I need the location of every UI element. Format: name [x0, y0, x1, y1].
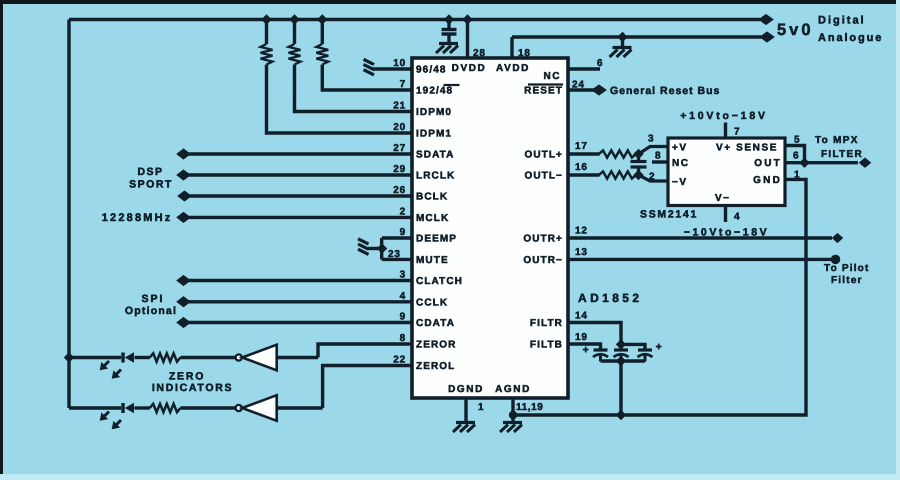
svg-text:7: 7	[734, 127, 740, 138]
op-amp U1 AD1852 body	[412, 58, 568, 398]
node LRCLK terminal	[177, 170, 190, 180]
pin label OUTR+	[523, 234, 563, 245]
node digital 5V terminal	[759, 15, 773, 25]
svg-text:OUTR−: OUTR−	[523, 255, 563, 266]
node analogue 5V terminal	[760, 32, 774, 42]
svg-text:AVDD: AVDD	[496, 63, 530, 74]
svg-text:13: 13	[575, 247, 588, 258]
node OUTR+ terminal	[833, 234, 843, 243]
pin label IDPM0	[416, 107, 452, 118]
wire FILTB	[568, 344, 601, 350]
pin number 6 ssm	[793, 151, 799, 162]
wire analogue 5V bus	[512, 35, 761, 38]
wire R1 to pin row	[267, 65, 413, 134]
label Digital	[818, 15, 866, 27]
pin number 18	[518, 48, 531, 59]
page edge right light	[896, 0, 900, 480]
pin number 23	[388, 249, 401, 260]
LED D1 arrows	[100, 361, 121, 379]
pin number 2	[649, 172, 655, 183]
pin number 29 row 5	[393, 164, 406, 175]
svg-text:6: 6	[597, 58, 603, 69]
wire filter caps rail	[601, 359, 646, 362]
pin label BCLK	[416, 192, 448, 203]
svg-text:Optional: Optional	[125, 305, 177, 317]
svg-text:DEEMP: DEEMP	[416, 234, 457, 245]
label To MPX	[815, 135, 859, 146]
wire bracket ground stub	[368, 247, 382, 250]
svg-text:21: 21	[393, 101, 406, 112]
wire V- riser pin 4	[724, 206, 727, 223]
ground G3 DGND	[453, 423, 475, 433]
svg-text:24: 24	[572, 80, 585, 91]
pin label CDATA	[416, 318, 455, 329]
pin number 8 row 13	[400, 333, 406, 344]
node CDATA terminal	[177, 318, 190, 328]
label AD1852	[578, 291, 642, 305]
wire RESET pin 24	[568, 88, 595, 91]
node digital bus junction at C1	[445, 15, 454, 24]
svg-text:5v0: 5v0	[777, 21, 814, 39]
wire indicator row2 left	[69, 406, 121, 409]
svg-text:V+ SENSE: V+ SENSE	[716, 143, 778, 154]
wire OUT pin 6	[785, 161, 858, 164]
svg-text:NC: NC	[672, 158, 689, 169]
LED D1	[123, 352, 134, 363]
label INDICATORS	[152, 382, 233, 394]
pin number 22 row 14	[393, 355, 406, 366]
pin label FILTR	[530, 318, 563, 329]
label 5v0	[777, 21, 814, 39]
pin number 4	[734, 212, 740, 223]
svg-text:DVDD: DVDD	[452, 63, 487, 74]
svg-text:DGND: DGND	[448, 384, 484, 395]
svg-text:AD1852: AD1852	[578, 291, 642, 305]
page edge bottom light	[0, 474, 900, 480]
wire R5 to -V	[636, 175, 668, 181]
svg-text:Analogue: Analogue	[818, 32, 883, 44]
node digital bus junction at R1	[262, 15, 271, 24]
label Optional	[125, 305, 177, 317]
wire BCLK	[187, 194, 412, 197]
pin number 2 row 7	[400, 206, 406, 217]
svg-text:AGND: AGND	[495, 384, 531, 395]
label Filter	[831, 275, 863, 286]
pin label ZEROL	[416, 361, 455, 372]
svg-text:8: 8	[655, 151, 661, 162]
label C5 plus	[656, 341, 663, 353]
svg-text:7: 7	[400, 79, 406, 90]
svg-text:FILTER: FILTER	[821, 149, 863, 160]
svg-text:CCLK: CCLK	[416, 297, 448, 308]
node AGND bus junction	[509, 411, 517, 419]
svg-text:3: 3	[648, 134, 654, 145]
ground arrow DEEMP/MUTE	[358, 239, 369, 255]
svg-text:General Reset Bus: General Reset Bus	[610, 85, 720, 97]
pin label CLATCH	[416, 276, 463, 287]
resistor R7	[150, 404, 181, 412]
label NC U2	[672, 158, 689, 169]
svg-text:192/48: 192/48	[416, 86, 453, 97]
svg-text:DSP: DSP	[137, 166, 163, 178]
node analogue bus junction	[618, 33, 627, 42]
svg-text:16: 16	[575, 162, 588, 173]
page border top	[0, 0, 900, 4]
svg-text:BCLK: BCLK	[416, 192, 448, 203]
node SDATA terminal	[177, 149, 190, 159]
label AVDD	[496, 63, 530, 74]
resistor R5	[599, 171, 636, 178]
pin number 24	[572, 80, 585, 91]
wire MCLK	[186, 216, 412, 219]
svg-text:−V: −V	[672, 177, 688, 188]
page border left	[0, 0, 3, 480]
svg-text:Filter: Filter	[831, 275, 863, 286]
wire analogue ground stub	[621, 37, 624, 46]
capacitor C4	[614, 350, 629, 362]
ground arrow pin 10	[364, 59, 375, 75]
pin label OUTL+	[524, 150, 563, 161]
svg-text:IDPM0: IDPM0	[416, 107, 452, 118]
label C3 plus	[583, 344, 590, 356]
svg-text:ZEROR: ZEROR	[416, 340, 457, 351]
wire R4 to +V	[636, 147, 668, 155]
pin number 9 row 12	[400, 312, 406, 323]
wire LRCLK	[186, 173, 412, 176]
pin label LRCLK	[416, 171, 455, 182]
svg-text:ZEROL: ZEROL	[416, 361, 455, 372]
svg-text:V−: V−	[715, 193, 731, 204]
node MCLK terminal	[177, 212, 190, 222]
wire CDATA	[186, 321, 412, 324]
pin label RESET	[524, 85, 563, 97]
label V+ SENSE	[716, 143, 778, 154]
pin number 5	[794, 135, 800, 146]
pin label MUTE	[416, 255, 449, 266]
node CCLK terminal	[177, 297, 190, 307]
svg-text:CDATA: CDATA	[416, 318, 455, 329]
wire NC pin 6	[568, 67, 600, 70]
pin number 20 row 3	[393, 122, 406, 133]
resistor R4	[599, 150, 636, 157]
pin number 4 row 11	[400, 291, 406, 302]
wire CLATCH	[186, 279, 412, 282]
wire AVDD riser pin 18	[510, 37, 513, 58]
pin label 96/48	[416, 65, 447, 76]
wire OUTR+	[568, 236, 832, 239]
pin label MCLK	[416, 213, 449, 224]
label SSM2141	[640, 209, 698, 221]
wire R2 to pin row	[295, 65, 413, 112]
wire NC stub pin 8	[652, 160, 668, 163]
svg-text:OUTL−: OUTL−	[524, 171, 563, 182]
svg-text:ZERO: ZERO	[169, 371, 205, 383]
capacitor C2	[631, 154, 647, 175]
pin number 14	[575, 311, 588, 322]
pin number 1 ssm	[794, 170, 800, 181]
pin label DEEMP	[416, 234, 457, 245]
wire DEEMP-MUTE bracket	[380, 238, 383, 259]
pin number 11,19	[516, 402, 543, 413]
label DGND	[448, 384, 484, 395]
label -10V supply	[684, 227, 770, 239]
svg-text:SPI: SPI	[142, 293, 165, 305]
svg-text:20: 20	[393, 122, 406, 133]
node digital bus junction at R2	[290, 15, 299, 24]
ground G2 analogue	[610, 48, 632, 58]
label To Pilot	[824, 263, 870, 274]
svg-text:CLATCH: CLATCH	[416, 276, 463, 287]
wire ZEROL	[323, 366, 412, 409]
wire buffer U4 output	[277, 406, 323, 409]
label General Reset Bus	[610, 85, 720, 97]
pin number 10 row 0	[393, 58, 406, 69]
wire R3 to pin row	[322, 65, 412, 91]
svg-text:MCLK: MCLK	[416, 213, 449, 224]
capacitor C3	[593, 350, 608, 362]
wire SENSE pin 5	[785, 146, 805, 163]
node ground bus junction	[617, 411, 626, 420]
svg-text:11,19: 11,19	[516, 402, 543, 413]
wire ZEROR	[318, 344, 412, 358]
pin number 27 row 4	[393, 143, 406, 154]
pin label OUTR-	[523, 255, 563, 266]
wire AGND pins 11,19	[511, 398, 514, 421]
wire D2 to R7	[135, 406, 150, 409]
pin number 13	[575, 247, 588, 258]
label FILTER	[821, 149, 863, 160]
resistor R6	[150, 353, 181, 361]
svg-text:OUTR+: OUTR+	[523, 234, 563, 245]
node digital bus junction at DVDD	[463, 15, 472, 24]
wire filter cap branch	[621, 344, 645, 349]
svg-text:NC: NC	[544, 71, 561, 82]
node digital bus junction at R3	[318, 15, 327, 24]
pin number 7 row 1	[400, 79, 406, 90]
ground G1 digital	[436, 44, 458, 54]
pin number 6	[597, 58, 603, 69]
wire digital 5V bus	[69, 18, 760, 21]
buffer U4	[236, 395, 277, 421]
label OUT	[754, 158, 782, 169]
label 12288MHz	[102, 212, 173, 224]
label SPORT	[129, 179, 173, 191]
label Analogue	[818, 32, 883, 44]
svg-text:OUT: OUT	[754, 158, 782, 169]
pin number 3	[648, 134, 654, 145]
pin number 3 row 10	[400, 270, 406, 281]
pin number 1 dgnd	[478, 402, 484, 413]
svg-text:SPORT: SPORT	[129, 179, 173, 191]
svg-text:12288MHz: 12288MHz	[102, 212, 173, 224]
wire CCLK	[186, 300, 412, 303]
wire caps to ground bus	[619, 361, 622, 415]
label SPI	[142, 293, 165, 305]
pin number 12	[575, 226, 588, 237]
label ZERO	[169, 371, 205, 383]
pin number 17	[575, 141, 588, 152]
capacitor C5	[638, 350, 653, 362]
wire D1 to R6	[135, 356, 150, 359]
pin label OUTL-	[524, 171, 563, 182]
pin number 19	[575, 332, 588, 343]
pin number 8	[655, 151, 661, 162]
resistor R2 pull-up	[289, 20, 301, 65]
node BCLK terminal	[178, 191, 191, 201]
wire R6 to buffer	[180, 356, 235, 359]
pin label NC	[544, 71, 561, 82]
node CLATCH terminal	[177, 276, 190, 286]
LED D2	[123, 403, 134, 414]
svg-text:12: 12	[575, 226, 588, 237]
wire buffer U3 output	[277, 356, 318, 359]
op-amp U2 SSM2141 body	[668, 138, 785, 206]
wire OUTL+ stub	[568, 152, 600, 155]
svg-text:6: 6	[793, 151, 799, 162]
wire OUTL- stub	[568, 173, 600, 176]
wire DGND pin 1	[464, 398, 467, 421]
svg-text:+V: +V	[672, 143, 688, 154]
capacitor C1 decoupling	[442, 20, 457, 43]
label DVDD	[452, 63, 487, 74]
label -V	[672, 177, 688, 188]
svg-text:2: 2	[649, 172, 655, 183]
pin label 192/48	[416, 85, 460, 97]
pin label FILTB	[530, 340, 563, 351]
label +V	[672, 143, 688, 154]
pin label ZEROR	[416, 340, 457, 351]
svg-text:14: 14	[575, 311, 588, 322]
node SENSE-OUT junction	[800, 158, 809, 167]
node filter cap branch junction	[617, 340, 626, 349]
pin number 21 row 2	[393, 101, 406, 112]
node bracket junction	[378, 244, 387, 253]
node reset terminal	[592, 85, 606, 95]
svg-text:19: 19	[575, 332, 588, 343]
wire pin 10	[373, 67, 412, 70]
svg-text:To MPX: To MPX	[815, 135, 859, 146]
resistor R3 pull-up	[316, 20, 328, 65]
svg-text:+: +	[656, 341, 663, 353]
wire DEEMP	[382, 236, 412, 239]
wire GND pin 1 down	[513, 179, 806, 415]
buffer U3	[236, 345, 277, 371]
wire left vertical bus	[67, 20, 70, 409]
pin number 9 row 8	[400, 227, 406, 238]
label GND	[753, 175, 782, 186]
svg-text:MUTE: MUTE	[416, 255, 449, 266]
svg-text:INDICATORS: INDICATORS	[152, 382, 233, 394]
label DSP	[137, 166, 163, 178]
wire SDATA	[186, 152, 412, 155]
label V-	[715, 193, 731, 204]
node -V junction	[634, 171, 643, 180]
pin number 16	[575, 162, 588, 173]
svg-text:SSM2141: SSM2141	[640, 209, 698, 221]
svg-text:1: 1	[478, 402, 484, 413]
wire MUTE	[382, 258, 412, 261]
wire indicator row1 left	[69, 356, 121, 359]
node OUT terminal	[860, 158, 871, 167]
svg-text:SDATA: SDATA	[416, 150, 454, 161]
svg-text:Digital: Digital	[818, 15, 866, 27]
label AGND	[495, 384, 531, 395]
wire V+ riser pin 7	[724, 123, 727, 139]
node caps rail junction	[617, 357, 626, 366]
svg-text:+: +	[583, 344, 590, 356]
node +V junction	[634, 150, 643, 159]
pin label CCLK	[416, 297, 448, 308]
svg-text:+10Vto−18V: +10Vto−18V	[680, 110, 768, 122]
svg-text:FILTR: FILTR	[530, 318, 563, 329]
wire R7 to buffer	[180, 406, 235, 409]
svg-text:To Pilot: To Pilot	[824, 263, 870, 274]
pin label IDPM1	[416, 129, 452, 140]
svg-text:LRCLK: LRCLK	[416, 171, 455, 182]
svg-text:96/48: 96/48	[416, 65, 447, 76]
LED D2 arrows	[100, 412, 121, 430]
node OUTR- terminal	[831, 255, 841, 265]
node left bus junction row1	[65, 353, 74, 362]
wire DVDD riser pin 28	[466, 20, 469, 59]
svg-text:FILTB: FILTB	[530, 340, 563, 351]
svg-text:4: 4	[734, 212, 740, 223]
pin label SDATA	[416, 150, 454, 161]
resistor R1 pull-up	[261, 20, 273, 65]
label +10V supply	[680, 110, 768, 122]
svg-text:RESET: RESET	[524, 86, 563, 97]
pin number 28	[473, 48, 486, 59]
svg-text:17: 17	[575, 141, 588, 152]
wire OUTR-	[568, 258, 831, 261]
wire FILTR	[568, 323, 621, 350]
ground G4 AGND	[500, 423, 522, 433]
svg-text:OUTL+: OUTL+	[524, 150, 563, 161]
svg-text:IDPM1: IDPM1	[416, 129, 452, 140]
pin number 26 row 6	[393, 185, 406, 196]
pin number 7	[734, 127, 740, 138]
svg-text:GND: GND	[753, 175, 782, 186]
